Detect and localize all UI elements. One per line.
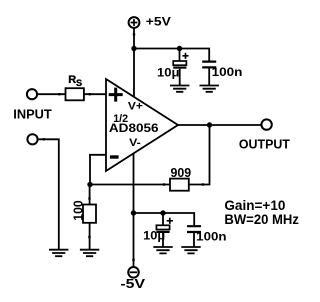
pin-end tick: -5V symbol <box>132 259 134 261</box>
op-amp U1 1/2 AD8056 <box>106 79 178 171</box>
wire: feedback node down to R 100 <box>89 185 91 205</box>
wire: +5V rail down to op-amp V+ pin <box>133 29 135 97</box>
svg-text:S: S <box>76 78 82 88</box>
wire: op-amp output <box>178 124 261 126</box>
svg-text:OUTPUT: OUTPUT <box>239 137 290 151</box>
ground: R 100 <box>80 250 99 257</box>
wire: R 100 to ground <box>89 223 91 249</box>
wire: input return to ground <box>38 139 58 249</box>
wire: bottom decoupling rail <box>134 213 195 226</box>
pin-end tick: R100 bottom <box>88 236 90 238</box>
capacitor C3 10u (bottom, electrolytic) <box>156 213 173 247</box>
wire: feedback node to R 909 <box>90 184 170 186</box>
svg-text:-5V: -5V <box>120 277 145 291</box>
junction dot: feedback node <box>87 182 92 187</box>
ground: bottom 100n <box>181 247 200 253</box>
svg-text:100n: 100n <box>212 65 243 79</box>
ground: top 10u <box>170 86 189 92</box>
wire: input to Rs <box>38 93 66 95</box>
OUTPUT terminal <box>261 119 271 129</box>
-5V supply symbol <box>128 267 139 278</box>
svg-text:909: 909 <box>171 165 192 180</box>
ground: input return <box>49 250 68 257</box>
svg-text:10μ: 10μ <box>143 229 165 243</box>
svg-text:100: 100 <box>70 200 85 220</box>
wire: Rs to op-amp non-inverting input <box>84 93 106 95</box>
svg-text:100n: 100n <box>196 230 226 244</box>
pin-end tick: Rs left <box>58 93 60 95</box>
svg-text:BW=20 MHz: BW=20 MHz <box>224 211 299 227</box>
svg-text:V+: V+ <box>128 101 143 113</box>
INPUT terminal <box>27 89 37 99</box>
svg-text:V-: V- <box>129 137 141 149</box>
junction dot: output node <box>207 122 212 127</box>
svg-text:+5V: +5V <box>146 15 171 29</box>
+5V supply symbol <box>129 17 140 28</box>
junction dot: V- rail / bottom decoupling <box>131 210 136 215</box>
wire: inverting input <box>90 155 106 185</box>
pin-end tick: R100 top <box>88 197 90 199</box>
capacitor C4 100n (bottom) <box>187 226 201 247</box>
ground: bottom 10u <box>153 247 172 253</box>
junction dot: 10u bottom <box>160 210 165 215</box>
svg-text:AD8056: AD8056 <box>109 123 159 135</box>
capacitor C2 100n (top) <box>202 62 216 86</box>
pin-end tick: Rs right <box>89 93 91 95</box>
wire: top decoupling rail <box>134 49 209 61</box>
resistor R1 100 <box>83 205 96 223</box>
svg-text:R: R <box>68 74 76 86</box>
resistor R2 909 <box>170 179 189 191</box>
pin-end tick: 909 left <box>163 183 165 185</box>
pin-end tick: 909 right <box>202 183 204 185</box>
junction dot: rail/decoupling <box>131 46 136 51</box>
wire: 909 to output node <box>189 125 210 185</box>
pin-end tick: +5V symbol <box>133 33 135 35</box>
capacitor C1 10u (top, electrolytic) <box>173 49 188 86</box>
svg-text:INPUT: INPUT <box>13 108 52 122</box>
ground: top 100n <box>200 86 219 92</box>
wire: op-amp V- pin down to -5V <box>133 154 135 267</box>
junction dot: 10u top <box>177 46 182 51</box>
resistor Rs <box>66 88 84 100</box>
pin-end tick: input return wire <box>43 138 45 140</box>
input return terminal <box>27 134 37 144</box>
svg-text:10μ: 10μ <box>157 66 179 80</box>
